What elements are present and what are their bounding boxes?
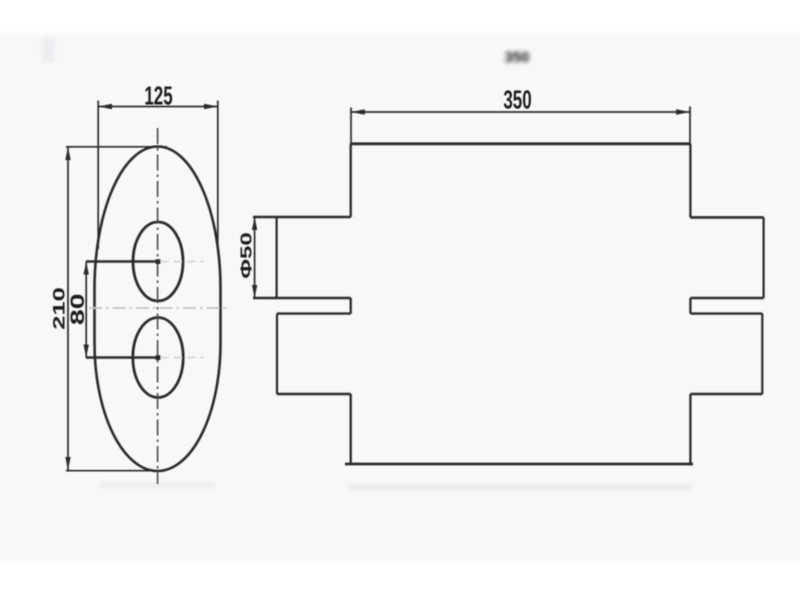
svg-text:210: 210 [49, 287, 69, 330]
svg-text:350: 350 [503, 85, 531, 114]
svg-text:350: 350 [504, 49, 529, 66]
svg-text:125: 125 [144, 81, 172, 110]
svg-text:80: 80 [67, 293, 88, 325]
svg-text:Φ50: Φ50 [238, 232, 255, 278]
